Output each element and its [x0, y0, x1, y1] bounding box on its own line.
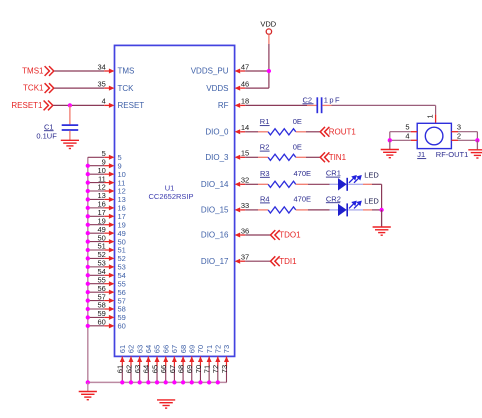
svg-text:66: 66: [159, 365, 168, 373]
svg-text:0E: 0E: [293, 142, 302, 151]
svg-text:60: 60: [97, 318, 105, 327]
J1 pin 3 stub: [451, 131, 458, 133]
pin 14 stub and arrow: [235, 129, 246, 134]
label CR2: [326, 194, 341, 203]
port chevron RESET1: [44, 101, 53, 111]
port chevron TCK1: [45, 83, 54, 93]
node junction pin 19: [86, 223, 90, 227]
wire resistor R3 to LED CR1: [296, 183, 338, 185]
wire bus to U1 pin 60: [88, 325, 104, 327]
svg-text:62: 62: [127, 345, 136, 353]
pin 36 stub and arrow: [235, 233, 246, 238]
pin 50 stub and arrow: [104, 239, 114, 244]
node junction pin 16: [86, 206, 90, 210]
wire pin 72 to bottom bus: [217, 367, 219, 383]
svg-text:RF-OUT1: RF-OUT1: [436, 150, 469, 159]
svg-text:TCK: TCK: [118, 84, 135, 93]
pin 60 stub and arrow: [104, 323, 114, 328]
ground right of J1: [468, 140, 482, 158]
wire bus to U1 pin 12: [88, 190, 104, 192]
node junction pin 53: [86, 265, 90, 269]
node junction pin 52: [86, 256, 90, 260]
svg-text:RF: RF: [218, 101, 229, 110]
node junction bottom pin 72: [216, 380, 220, 384]
J1 pin 4 stub: [411, 139, 417, 141]
svg-text:65: 65: [153, 345, 162, 353]
svg-text:63: 63: [133, 365, 142, 373]
wire bottom bus horizontal: [88, 381, 227, 383]
svg-text:34: 34: [97, 62, 105, 71]
svg-text:DIO_3: DIO_3: [205, 153, 229, 162]
svg-text:73: 73: [220, 365, 229, 373]
svg-text:2: 2: [457, 132, 461, 141]
U1 bottom pin 66 stub and arrow: [163, 356, 168, 366]
pin 46 stub and arrow: [235, 86, 246, 91]
wire VDD down: [268, 34, 270, 88]
svg-text:DIO_15: DIO_15: [201, 206, 229, 215]
ground bottom middle: [157, 400, 175, 408]
label R1: [260, 117, 270, 126]
node junction pin 55: [86, 282, 90, 286]
port chevron ROUT1: [320, 127, 329, 137]
svg-text:61: 61: [118, 345, 127, 353]
port RESET1: [11, 101, 43, 110]
svg-text:63: 63: [135, 345, 144, 353]
port chevron TDI1: [271, 256, 280, 266]
U1 bottom pin 63 stub and arrow: [137, 356, 142, 366]
wire J1 pin 2 to right ground corner: [458, 139, 477, 141]
label R3: [260, 169, 270, 178]
resistor R1: [268, 129, 296, 135]
svg-text:47: 47: [241, 62, 249, 71]
LED CR1: [338, 178, 347, 190]
U1 bottom pin 72 stub and arrow: [215, 356, 220, 366]
node junction pin 51: [86, 248, 90, 252]
svg-text:5: 5: [405, 123, 409, 132]
node junction pin 13: [86, 197, 90, 201]
svg-text:ROUT1: ROUT1: [329, 128, 357, 137]
node junction bottom pin 67: [172, 380, 176, 384]
svg-text:69: 69: [185, 365, 194, 373]
wire left bus vertical: [87, 157, 89, 382]
node junction pin 59: [86, 315, 90, 319]
port TMS1: [22, 67, 44, 76]
op-amp U1 CC2652RSIP IC body: [115, 45, 235, 356]
U1 bottom pin 61 stub and arrow: [120, 356, 125, 366]
svg-text:TCK1: TCK1: [23, 84, 44, 93]
svg-text:R3: R3: [260, 169, 270, 178]
svg-text:DIO_17: DIO_17: [201, 257, 229, 266]
wire pin 70 to bottom bus: [199, 367, 201, 383]
J1 pin 1 stub: [435, 115, 437, 124]
svg-text:32: 32: [241, 176, 249, 185]
wire C2 to J1 pin 1: [322, 105, 435, 114]
wire bus to U1 pin 10: [88, 173, 104, 175]
pin 56 stub and arrow: [104, 290, 114, 295]
node junction pin 49: [86, 231, 90, 235]
svg-text:72: 72: [211, 365, 220, 373]
wire bus to U1 pin 50: [88, 241, 104, 243]
wire resistor R2 to port TIN1: [296, 156, 321, 158]
node junction pin 50: [86, 239, 90, 243]
node VDD junction pin 47: [267, 69, 271, 73]
svg-text:0.1UF: 0.1UF: [36, 131, 57, 140]
pin 15 stub and arrow: [235, 155, 246, 160]
wire bus to U1 pin 51: [88, 249, 104, 251]
power symbol VDD: [260, 20, 276, 35]
U1 bottom pin 67 stub and arrow: [172, 356, 177, 366]
wire bus to U1 pin 17: [88, 215, 104, 217]
wire pin 61 to bottom bus: [121, 367, 123, 383]
pin 10 stub and arrow: [104, 172, 114, 177]
node junction bottom pin 61: [120, 380, 124, 384]
svg-text:61: 61: [116, 365, 125, 373]
svg-text:67: 67: [170, 345, 179, 353]
U1 bottom pin 69 stub and arrow: [189, 356, 194, 366]
svg-text:65: 65: [150, 365, 159, 373]
pin 19 stub and arrow: [104, 222, 114, 227]
pin 9 stub and arrow: [104, 163, 114, 168]
wire TCK1 to U1 pin 35: [54, 87, 104, 89]
node junction bottom pin 68: [181, 380, 185, 384]
svg-text:36: 36: [241, 226, 249, 235]
wire C1 to ground: [69, 131, 71, 141]
svg-text:RESET1: RESET1: [11, 101, 43, 110]
pin 4 stub and arrow: [104, 103, 114, 108]
wire bus to U1 pin 13: [88, 198, 104, 200]
svg-text:62: 62: [124, 365, 133, 373]
port chevron TMS1: [45, 66, 54, 76]
svg-text:TDI1: TDI1: [279, 257, 297, 266]
svg-text:69: 69: [187, 345, 196, 353]
wire RESET1 node down to C1: [69, 105, 71, 124]
node junction pin 11: [86, 180, 90, 184]
wire pin 63 to bottom bus: [139, 367, 141, 383]
node junction pin 56: [86, 290, 90, 294]
svg-text:R4: R4: [260, 195, 270, 204]
U1 bottom pin 70 stub and arrow: [198, 356, 203, 366]
svg-text:66: 66: [161, 345, 170, 353]
port chevron TIN1: [320, 152, 329, 162]
wire J1 pin 3 to right ground corner: [458, 132, 477, 141]
node LED rail junction: [379, 208, 383, 212]
svg-text:CR1: CR1: [326, 169, 341, 178]
pin 32 stub and arrow: [235, 182, 246, 187]
svg-text:VDDS: VDDS: [206, 84, 228, 93]
pin 55 stub and arrow: [104, 281, 114, 286]
wire LED rail vertical: [381, 184, 383, 210]
wire bus to U1 pin 53: [88, 266, 104, 268]
node junction pin 60: [86, 324, 90, 328]
wire pin 65 to bottom bus: [156, 367, 158, 383]
pin 16 stub and arrow: [104, 205, 114, 210]
wire pin 62 to bottom bus: [130, 367, 132, 383]
svg-text:TIN1: TIN1: [329, 153, 347, 162]
svg-text:72: 72: [214, 345, 223, 353]
wire J1 pin 5 to ground corner: [390, 132, 411, 141]
svg-text:18: 18: [241, 97, 249, 106]
label C1: [44, 122, 54, 131]
svg-text:LED: LED: [364, 196, 379, 205]
svg-text:J1: J1: [417, 150, 425, 159]
node junction bottom pin 69: [190, 380, 194, 384]
svg-text:R1: R1: [260, 117, 270, 126]
wire pin 64 to bottom bus: [147, 367, 149, 383]
wire pin 47 to VDD net: [245, 70, 269, 72]
pin 18 stub and arrow: [235, 103, 246, 108]
svg-text:VDDS_PU: VDDS_PU: [191, 67, 229, 76]
node J1 left ground junction: [388, 138, 392, 142]
svg-text:DIO_14: DIO_14: [201, 180, 229, 189]
pin 35 stub and arrow: [104, 86, 114, 91]
resistor R4: [268, 207, 296, 213]
svg-text:71: 71: [203, 365, 212, 373]
pin 34 stub and arrow: [104, 69, 114, 74]
svg-text:33: 33: [241, 201, 249, 210]
svg-text:4: 4: [405, 132, 409, 141]
pin 52 stub and arrow: [104, 256, 114, 261]
svg-text:15: 15: [241, 149, 249, 158]
wire pin 68 to bottom bus: [182, 367, 184, 383]
J1 pin 5 stub: [411, 131, 417, 133]
node junction pin 9: [86, 164, 90, 168]
ground below LEDs: [373, 210, 391, 235]
wire pin 66 to bottom bus: [165, 367, 167, 383]
wire pin 36 to port TDO1: [245, 234, 271, 236]
wire pin 14 to resistor R1: [245, 131, 268, 133]
node junction bottom pin 63: [138, 380, 142, 384]
ground below C1: [61, 140, 79, 148]
wire bus to U1 pin 11: [88, 182, 104, 184]
label R2: [260, 143, 270, 152]
wire bus to U1 pin 56: [88, 291, 104, 293]
pin 53 stub and arrow: [104, 264, 114, 269]
node junction pin 10: [86, 172, 90, 176]
pin 57 stub and arrow: [104, 298, 114, 303]
wire bus to U1 pin 57: [88, 300, 104, 302]
LED CR2: [338, 204, 347, 216]
svg-text:VDD: VDD: [260, 20, 276, 29]
wire LED CR2 to right rail: [348, 209, 381, 211]
node RESET1 junction: [68, 103, 72, 107]
svg-text:0E: 0E: [293, 117, 302, 126]
pin 59 stub and arrow: [104, 315, 114, 320]
label J1: [417, 150, 426, 159]
wire bus to U1 pin 5: [88, 156, 104, 158]
svg-text:CC2652RSIP: CC2652RSIP: [148, 192, 193, 201]
svg-text:46: 46: [241, 79, 249, 88]
pin 12 stub and arrow: [104, 189, 114, 194]
wire bus to U1 pin 55: [88, 283, 104, 285]
svg-text:68: 68: [176, 365, 185, 373]
node junction pin 12: [86, 189, 90, 193]
pin 47 stub and arrow: [235, 69, 246, 74]
wire bus to U1 pin 58: [88, 308, 104, 310]
pin 5 stub and arrow: [104, 155, 114, 160]
node junction pin 54: [86, 273, 90, 277]
U1 bottom pin 65 stub and arrow: [155, 356, 160, 366]
svg-text:CR2: CR2: [326, 194, 341, 203]
pin 17 stub and arrow: [104, 214, 114, 219]
wire resistor R4 to LED CR2: [296, 209, 338, 211]
wire bus to U1 pin 16: [88, 207, 104, 209]
wire LED CR1 to right rail: [348, 183, 381, 185]
capacitor C2: [317, 97, 321, 113]
node junction bottom pin 62: [129, 380, 133, 384]
pin 49 stub and arrow: [104, 231, 114, 236]
svg-text:1pF: 1pF: [324, 96, 341, 105]
wire pin 46 to VDD net: [245, 87, 269, 89]
svg-text:C1: C1: [44, 122, 54, 131]
wire bus to U1 pin 19: [88, 224, 104, 226]
wire resistor R1 to port ROUT1: [296, 131, 321, 133]
wire TMS1 to U1 pin 34: [54, 70, 104, 72]
capacitor C1: [62, 125, 78, 130]
svg-text:TDO1: TDO1: [279, 231, 301, 240]
node junction pin 17: [86, 214, 90, 218]
wire bus to U1 pin 52: [88, 257, 104, 259]
svg-text:TMS1: TMS1: [22, 67, 44, 76]
wire pin 18 to C2: [245, 104, 316, 106]
label C2: [303, 95, 314, 104]
svg-text:37: 37: [241, 253, 249, 262]
svg-text:71: 71: [205, 345, 214, 353]
wire pin 67 to bottom bus: [173, 367, 175, 383]
svg-text:4: 4: [102, 97, 106, 106]
svg-text:DIO_0: DIO_0: [205, 128, 229, 137]
node junction pin 57: [86, 298, 90, 302]
node junction bottom pin 71: [207, 380, 211, 384]
svg-text:C2: C2: [303, 95, 313, 104]
wire bus to U1 pin 54: [88, 274, 104, 276]
wire pin 71 to bottom bus: [208, 367, 210, 383]
svg-text:470E: 470E: [294, 195, 312, 204]
node junction bottom pin 66: [164, 380, 168, 384]
wire pin 69 to bottom bus: [191, 367, 193, 383]
wire pin 15 to resistor R2: [245, 156, 268, 158]
wire bus to U1 pin 49: [88, 232, 104, 234]
wire pin 73 to bottom bus: [225, 367, 227, 383]
wire bus to U1 pin 9: [88, 165, 104, 167]
svg-text:R2: R2: [260, 143, 270, 152]
port TCK1: [23, 84, 44, 93]
wire pin 32 to resistor R3: [245, 183, 268, 185]
svg-text:470E: 470E: [294, 169, 312, 178]
pin 54 stub and arrow: [104, 273, 114, 278]
label R4: [260, 195, 270, 204]
svg-text:73: 73: [222, 345, 231, 353]
ground bottom left: [79, 382, 97, 399]
wire RESET1 to U1 pin 4: [53, 104, 104, 106]
svg-text:14: 14: [241, 123, 249, 132]
svg-text:64: 64: [142, 365, 151, 373]
node J1 right ground junction: [475, 138, 479, 142]
svg-text:67: 67: [168, 365, 177, 373]
pin 11 stub and arrow: [104, 180, 114, 185]
svg-text:60: 60: [118, 322, 126, 331]
svg-text:64: 64: [144, 345, 153, 353]
resistor R3: [268, 181, 296, 187]
wire pin 33 to resistor R4: [245, 209, 268, 211]
pin 51 stub and arrow: [104, 248, 114, 253]
wire pin 37 to port TDI1: [245, 260, 271, 262]
resistor R2: [268, 154, 296, 160]
svg-text:LED: LED: [364, 171, 379, 180]
svg-text:DIO_16: DIO_16: [201, 231, 229, 240]
svg-text:TMS: TMS: [118, 67, 135, 76]
U1 bottom pin 71 stub and arrow: [207, 356, 212, 366]
port chevron TDO1: [271, 230, 280, 240]
U1 bottom pin 62 stub and arrow: [128, 356, 133, 366]
svg-text:RESET: RESET: [118, 101, 145, 110]
node junction bottom pin 70: [198, 380, 202, 384]
node bottom-left junction: [86, 380, 90, 384]
svg-text:70: 70: [194, 365, 203, 373]
U1 bottom pin 73 stub and arrow: [224, 356, 229, 366]
svg-text:3: 3: [457, 123, 461, 132]
svg-text:35: 35: [97, 79, 105, 88]
U1 bottom pin 68 stub and arrow: [181, 356, 186, 366]
pin 13 stub and arrow: [104, 197, 114, 202]
wire bus to U1 pin 59: [88, 316, 104, 318]
pin 33 stub and arrow: [235, 207, 246, 212]
ground left of J1: [381, 140, 399, 157]
svg-text:68: 68: [179, 345, 188, 353]
U1 bottom pin 64 stub and arrow: [146, 356, 151, 366]
label CR1: [326, 169, 341, 178]
connector J1 body: [417, 123, 451, 148]
pin 58 stub and arrow: [104, 307, 114, 312]
svg-text:70: 70: [196, 345, 205, 353]
node junction pin 58: [86, 307, 90, 311]
wire J1 pin 4 to ground corner: [390, 139, 411, 141]
J1 pin 2 stub: [451, 139, 458, 141]
svg-text:1: 1: [425, 114, 434, 118]
pin 37 stub and arrow: [235, 259, 246, 264]
node junction bottom pin 65: [155, 380, 159, 384]
node junction bottom pin 64: [146, 380, 150, 384]
